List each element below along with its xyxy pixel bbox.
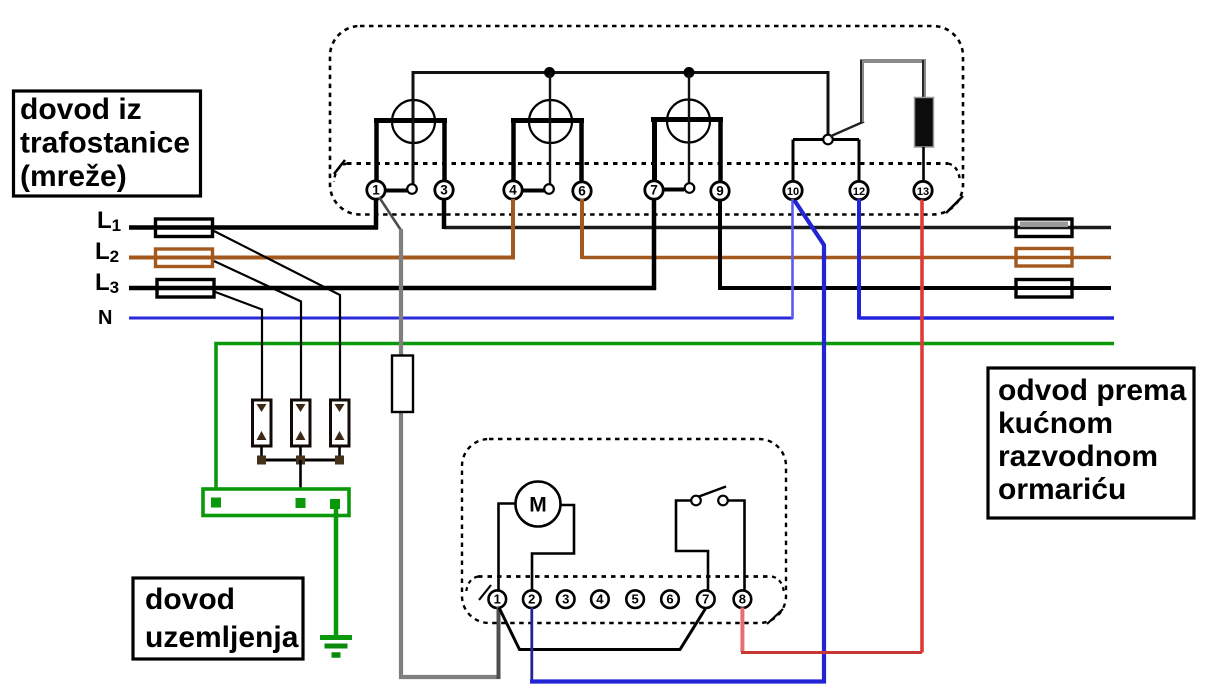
svg-text:4: 4 — [596, 592, 604, 607]
tariff switch pivot — [823, 135, 833, 145]
element 3 tap link — [663, 188, 684, 192]
motor M lead left — [499, 504, 516, 592]
svg-text:6: 6 — [666, 592, 673, 607]
receiver terminal 1 — [489, 590, 507, 608]
element 3 tap terminal small circle — [685, 183, 695, 193]
wire red bottom run — [741, 651, 922, 654]
wire N outgoing from terminal 12 — [859, 316, 1114, 320]
arrester 2 bottom lead — [299, 446, 302, 461]
wire N drop terminal 10 — [791, 199, 794, 319]
svg-text:10: 10 — [787, 186, 799, 198]
LEFT-SECTION — [203, 197, 500, 679]
fuse F1 right gray band — [1020, 222, 1068, 228]
svg-text:12: 12 — [853, 186, 865, 198]
motor M lead right — [532, 505, 574, 591]
terminal 7 — [645, 181, 663, 199]
wire L1 incoming — [129, 225, 378, 230]
label box dovod uzemljenja — [133, 578, 303, 659]
svg-text:dovod: dovod — [145, 583, 235, 616]
receiver terminal strip upper dashed line — [478, 575, 772, 578]
fuse F1 left — [156, 219, 213, 237]
LINES-SECTION — [95, 199, 1114, 489]
svg-text:(mreže): (mreže) — [20, 160, 127, 193]
receiver switch contact left — [691, 496, 701, 506]
terminal 4 — [504, 181, 522, 199]
strip break slash left — [334, 160, 345, 174]
svg-text:odvod prema: odvod prema — [998, 374, 1187, 407]
wire L3 outgoing from terminal 9 — [720, 286, 1111, 290]
surge arrester 1 — [253, 400, 272, 446]
element 1 tap wire — [412, 73, 414, 185]
receiver terminal 5 — [626, 590, 644, 608]
label box odvod prema kucnom — [988, 368, 1194, 518]
BOTTOM-BOX-SECTION — [462, 439, 786, 624]
wire blue bottom run to terminal10 — [530, 201, 824, 682]
wire red riser to terminal13 — [920, 200, 924, 653]
wire black terminal1 to gray corner — [497, 607, 501, 679]
element 1 tap link — [384, 189, 407, 193]
element 2 tap wire — [549, 73, 551, 185]
receiver switch lead right — [728, 501, 745, 592]
wire L1 outgoing from terminal 3 — [444, 226, 1111, 229]
wire L1 drop from terminal 3 — [442, 199, 447, 229]
WIRES-SECTION — [499, 200, 923, 682]
terminal strip right corner arc — [948, 164, 960, 183]
receiver switch blade — [699, 487, 726, 497]
terminal 9 — [711, 182, 729, 200]
fuse F2 right — [1016, 249, 1072, 267]
svg-text:9: 9 — [716, 184, 724, 199]
wire N drop terminal 12 — [857, 199, 861, 320]
receiver terminal 2 — [523, 590, 541, 608]
arrester bar junction blob 3 — [335, 456, 344, 465]
svg-text:5: 5 — [631, 592, 638, 607]
receiver strip left corner arc — [466, 577, 478, 595]
resistor R heating element — [915, 98, 934, 148]
svg-text:uzemljenja: uzemljenja — [145, 621, 299, 654]
terminal 10 — [784, 181, 802, 199]
svg-text:trafostanice: trafostanice — [20, 127, 190, 160]
terminal 6 — [573, 182, 591, 200]
element 1 voltage coil circle — [392, 100, 435, 143]
wire jumper terminal1 to terminal7 — [499, 608, 706, 650]
terminal 13 — [914, 181, 932, 199]
element 2 current coil — [511, 121, 584, 183]
receiver terminal 8 — [734, 590, 752, 608]
svg-text:4: 4 — [509, 183, 517, 198]
tariff switch lead to terminal 10 — [792, 140, 795, 183]
switch loop wire gray — [862, 61, 924, 122]
wire branch L1 to arrester 3 — [214, 231, 340, 400]
svg-text:M: M — [529, 494, 547, 517]
fuse on gray tap wire — [392, 356, 413, 413]
element 3 current coil — [651, 120, 723, 183]
svg-text:1: 1 — [372, 183, 380, 198]
receiver strip slash left — [479, 585, 491, 600]
svg-text:7: 7 — [650, 183, 658, 198]
svg-text:ormariću: ormariću — [998, 473, 1126, 506]
svg-text:1: 1 — [494, 592, 501, 607]
voltage bus wire — [413, 73, 828, 185]
wire N incoming blue — [129, 317, 793, 320]
tariff switch blade — [830, 122, 864, 137]
earth bus dot 1 — [211, 498, 221, 508]
arrester bar junction blob 1 — [257, 456, 266, 465]
label box dovod iz trafostanice — [14, 91, 201, 196]
element 2 voltage coil circle — [529, 100, 572, 143]
arrester bar junction blob 2 — [296, 456, 305, 465]
svg-text:8: 8 — [739, 592, 746, 607]
element 2 tap link — [521, 189, 544, 193]
svg-text:3: 3 — [440, 183, 448, 198]
wire gray tap diagonal from terminal 1 — [379, 197, 402, 231]
tariff switch lead to terminal 12 — [858, 140, 861, 183]
arrester 1 bottom lead — [260, 446, 263, 461]
resistor lead to terminal 13 — [922, 147, 925, 182]
earth bus bar green — [203, 489, 349, 516]
svg-text:2: 2 — [528, 592, 535, 607]
fuse F3 right — [1016, 280, 1072, 298]
fuse F3 left — [157, 280, 214, 298]
bus junction dot node B — [684, 67, 695, 78]
svg-text:7: 7 — [702, 592, 709, 607]
bus junction dot node A — [544, 67, 555, 78]
element 1 tap terminal small circle — [407, 184, 417, 194]
wire L3 drop from terminal 9 — [718, 199, 722, 290]
receiver strip right corner arc — [772, 577, 784, 595]
wire blue terminal2 drop — [530, 608, 533, 682]
receiver terminal 3 — [557, 590, 575, 608]
svg-text:dovod iz: dovod iz — [20, 93, 142, 126]
svg-text:N: N — [98, 307, 112, 329]
wire earth bus to ground — [334, 508, 339, 638]
svg-text:3: 3 — [562, 592, 569, 607]
receiver enclosure dashed box — [462, 439, 786, 623]
wire PE green main — [216, 344, 1114, 490]
arrester common bar — [260, 459, 341, 462]
receiver terminal 7 — [697, 590, 715, 608]
terminal 3 — [435, 181, 453, 199]
wire L2 drop from terminal 6 — [580, 199, 584, 259]
fuse F2 left — [156, 249, 213, 267]
wire L2 incoming brown — [129, 256, 515, 260]
arrester 3 bottom lead — [338, 446, 341, 461]
svg-text:6: 6 — [578, 184, 586, 199]
wire L3 incoming — [129, 286, 656, 291]
wire branch L2 to arrester 2 — [214, 261, 301, 400]
svg-text:razvodnom: razvodnom — [998, 440, 1158, 473]
ground symbol — [320, 638, 352, 656]
surge arrester 2 — [292, 400, 311, 446]
switch loop wire dark edge right — [922, 60, 924, 98]
wire L2 riser to terminal 4 — [511, 199, 515, 259]
svg-text:13: 13 — [917, 186, 929, 198]
svg-text:kućnom: kućnom — [998, 407, 1113, 440]
fuse F1 right — [1016, 219, 1072, 237]
wire arrester bar to earth bus — [299, 460, 302, 499]
earth bus dot 3 — [330, 499, 340, 509]
element 3 voltage coil circle — [667, 100, 710, 143]
element 1 current coil — [374, 121, 447, 183]
receiver switch contact right — [718, 496, 728, 506]
element 3 tap wire — [688, 73, 690, 184]
strip break slash right — [946, 196, 963, 213]
surge arrester 3 — [331, 400, 350, 446]
receiver terminal 6 — [661, 590, 679, 608]
wire gray tap vertical — [399, 229, 403, 679]
earth bus dot 2 — [296, 498, 306, 508]
wire red terminal8 drop — [740, 608, 744, 653]
wire L1 riser to terminal 1 — [374, 199, 379, 229]
wire L3 riser to terminal 7 — [652, 199, 657, 290]
meter enclosure dashed box — [330, 26, 963, 215]
wire branch L3 to arrester 1 — [214, 292, 262, 401]
terminal 1 — [367, 181, 385, 199]
receiver terminal 4 — [591, 590, 609, 608]
wire L2 outgoing from terminal 6 — [582, 256, 1111, 259]
switch loop wire dark edge left — [860, 60, 862, 122]
terminal 12 — [850, 181, 868, 199]
wire gray tap bottom horizontal — [399, 675, 500, 679]
tariff switch link 10-12 — [793, 138, 859, 141]
terminal strip left corner arc — [334, 164, 347, 183]
element 2 tap terminal small circle — [544, 184, 554, 194]
receiver switch lead left — [676, 501, 708, 592]
receiver strip slash right — [767, 609, 783, 624]
motor M circle — [516, 482, 561, 527]
METER-BOX-SECTION — [330, 26, 963, 215]
meter terminal strip upper dashed line — [347, 162, 948, 165]
